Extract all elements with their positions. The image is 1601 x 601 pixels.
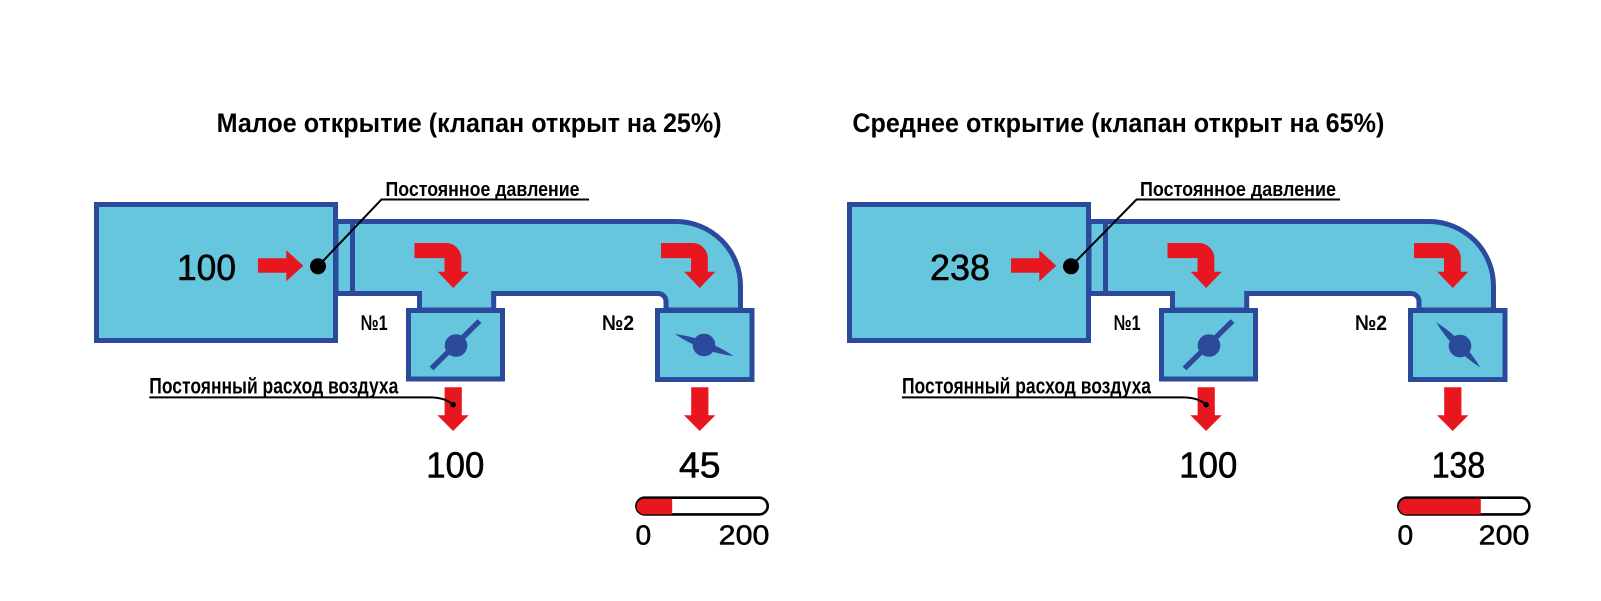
valve box 1 (409, 311, 503, 380)
damper blade valve 1 (45 deg) (432, 321, 480, 369)
damper hub valve 2 (693, 334, 716, 357)
red down arrow under valve 2 (684, 387, 715, 431)
duct with elbow and two branch necks (336, 222, 741, 311)
supply fan box (850, 205, 1089, 341)
svg-text:№1: №1 (361, 311, 388, 335)
red bent arrow branch 1 (415, 243, 469, 288)
duct flange line (350, 219, 355, 296)
svg-text:№1: №1 (1114, 311, 1141, 335)
svg-text:Постоянный расход воздуха: Постоянный расход воздуха (902, 374, 1152, 399)
svg-text:Среднее открытие (клапан откры: Среднее открытие (клапан открыт на 65%) (852, 108, 1384, 138)
svg-text:Постоянное давление: Постоянное давление (1140, 179, 1336, 201)
svg-text:238: 238 (930, 247, 990, 288)
callout line to pressure label (318, 200, 589, 267)
svg-text:Малое открытие (клапан открыт: Малое открытие (клапан открыт на 25%) (217, 108, 722, 138)
red down arrow under valve 2 (1437, 387, 1468, 431)
svg-text:№2: №2 (602, 311, 634, 335)
svg-text:№2: №2 (1355, 311, 1387, 335)
svg-text:200: 200 (1479, 519, 1530, 550)
svg-text:100: 100 (1179, 445, 1237, 486)
svg-text:45: 45 (679, 445, 721, 486)
gauge outline (1398, 498, 1529, 515)
red bent arrow branch 1 (1168, 243, 1222, 288)
svg-text:100: 100 (426, 445, 484, 486)
damper blade valve 2 (nearly closed) (675, 334, 734, 356)
svg-text:Постоянное давление: Постоянное давление (386, 179, 580, 201)
valve box 2 (1411, 311, 1506, 380)
valve box 1 (1162, 311, 1256, 380)
red flow arrow right (258, 250, 303, 281)
duct flange line (1103, 219, 1108, 296)
gauge outline (636, 498, 767, 515)
damper hub valve 1 (1198, 334, 1221, 357)
callout line constant airflow (149, 397, 453, 404)
callout line constant airflow (902, 397, 1206, 404)
duct with elbow and two branch necks (1089, 222, 1494, 311)
callout end dot (1203, 402, 1209, 408)
valve box 2 (658, 311, 753, 380)
gauge red fill (138 of 200) (1399, 499, 1481, 515)
svg-text:0: 0 (1398, 519, 1414, 550)
red flow arrow right (1011, 250, 1056, 281)
svg-text:138: 138 (1432, 445, 1486, 486)
pressure sensor dot (1063, 258, 1079, 274)
callout line to pressure label (1071, 200, 1340, 267)
pressure sensor dot (310, 258, 326, 274)
damper blade valve 1 (45 deg) (1185, 321, 1233, 369)
supply fan box (97, 205, 336, 341)
damper hub valve 2 (1449, 335, 1472, 358)
red down arrow under valve 1 (1190, 387, 1221, 431)
svg-text:Постоянный расход воздуха: Постоянный расход воздуха (149, 374, 399, 399)
damper blade valve 2 (65% open) (1436, 322, 1480, 368)
svg-text:100: 100 (177, 247, 236, 288)
damper hub valve 1 (445, 334, 468, 357)
red bent arrow branch 2 (661, 243, 715, 288)
red bent arrow branch 2 (1414, 243, 1468, 288)
red down arrow under valve 1 (437, 387, 468, 431)
callout end dot (450, 402, 456, 408)
gauge red fill (45 of 200) (637, 499, 673, 515)
svg-text:200: 200 (719, 519, 770, 550)
svg-text:0: 0 (636, 519, 652, 550)
